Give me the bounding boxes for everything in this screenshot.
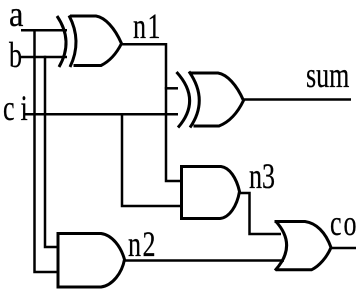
wire ci input <box>24 113 178 116</box>
wire a input <box>21 29 67 32</box>
and-gate U3 <box>182 167 240 219</box>
wire co output <box>331 247 356 250</box>
svg-text:n1: n1 <box>133 6 162 46</box>
xor-gate U2 <box>177 72 244 128</box>
xor-gate U1 <box>57 16 122 68</box>
or-gate U5 <box>275 221 332 271</box>
svg-text:sum: sum <box>306 55 349 95</box>
wire b tap down to U4 <box>45 56 57 247</box>
svg-text:co: co <box>330 203 359 243</box>
wire n1 stub into U2 <box>165 87 178 90</box>
wire ci tap down to U3 <box>122 113 181 206</box>
svg-text:b: b <box>9 35 22 75</box>
wire n3 from U3 output down to U5 <box>240 193 282 234</box>
svg-text:ci: ci <box>3 88 34 128</box>
wire sum output <box>244 98 352 101</box>
and-gate U4 <box>58 234 125 288</box>
wire n1 from U1 output down to U3 <box>122 44 182 181</box>
svg-text:n2: n2 <box>128 224 157 264</box>
svg-text:n3: n3 <box>249 156 275 196</box>
wire b input <box>21 56 68 59</box>
wire a tap down to U4 <box>35 29 58 272</box>
wire n2 from U4 output to U5 <box>125 259 285 262</box>
